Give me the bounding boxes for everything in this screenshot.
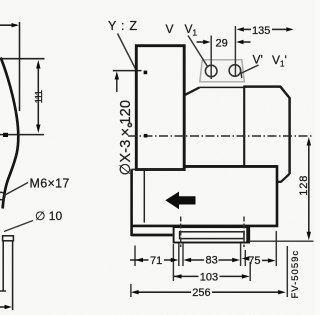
centre mark square dot [3, 133, 8, 137]
leader from V1 to left port [188, 36, 208, 67]
dimension 111 vertical line with arrows [37, 68, 39, 126]
bolt-circle up arrow [115, 71, 119, 79]
silencer box top-left thin line [132, 168, 185, 170]
left view: shaft right line [12, 241, 14, 310]
leader from V' to right port [241, 65, 259, 74]
degree mark [128, 123, 131, 126]
left view: leader line for M6x17 [4, 183, 28, 196]
ext line 256 right [286, 246, 288, 297]
svg-text:Y : Z: Y : Z [108, 19, 138, 33]
dimension 83 [191, 259, 234, 261]
bolt centre line left (dashed) [180, 217, 182, 248]
left view: vertical extension line x19 [19, 22, 21, 111]
silencer box outline [132, 166, 277, 236]
dimension 75 [242, 256, 250, 260]
flange bolt-circle line [113, 70, 142, 72]
silencer top edge thick [184, 165, 277, 168]
housing top edge right part [243, 85, 281, 88]
ext line motor edge [182, 244, 184, 267]
port centre line left [210, 36, 212, 80]
svg-text:128: 128 [298, 175, 310, 196]
ext line 103/256 right [249, 262, 251, 281]
left view: horizontal extension line y58.7 [0, 58, 45, 60]
base plate outer [174, 227, 250, 242]
motor bottom thin line [137, 169, 184, 171]
svg-text:256: 256 [192, 287, 210, 299]
svg-text:71: 71 [150, 255, 162, 267]
svg-text:135: 135 [252, 25, 270, 37]
silencer inner vertical line [143, 171, 145, 223]
dimension 128 vertical [308, 144, 310, 233]
port V circle (left) [205, 65, 217, 77]
housing bottom edge to silencer [276, 181, 282, 183]
ext line plate right end [244, 250, 246, 266]
dimension 71 [130, 259, 173, 261]
dimension 29 [197, 41, 204, 43]
ext line 256 left [130, 284, 132, 297]
left view: blower circular housing arc [1, 58, 19, 209]
centre mark square on centre line [144, 134, 148, 138]
left view: top width dimension line with right arrow [0, 24, 17, 26]
housing top-right chamfer [280, 87, 289, 98]
small square dot near flange [144, 71, 148, 75]
left view: shaft left line [2, 241, 4, 291]
svg-text:29: 29 [216, 38, 228, 50]
housing right edge [288, 98, 291, 175]
port V' circle (right) [229, 65, 241, 77]
main horizontal centre line (dash-dot) [128, 135, 313, 137]
shaft bottom dimension arrow [0, 306, 5, 308]
port centre line right [234, 26, 236, 77]
svg-text:111: 111 [34, 89, 45, 103]
leader from Y:Z to motor flange corner [118, 34, 136, 70]
housing top edge left part [200, 86, 246, 88]
ext line silencer right [275, 231, 277, 266]
left view: horizontal centre line [0, 134, 44, 136]
ext line 103 left [172, 244, 174, 281]
bolt centre line right (dashed) [243, 217, 245, 248]
left foot bottom [131, 234, 172, 237]
svg-text:FV-5059c: FV-5059c [290, 250, 301, 299]
shaft left end tick [0, 290, 6, 292]
housing bottom-right chamfer [281, 174, 290, 182]
svg-text:∅X-3 × 120: ∅X-3 × 120 [118, 100, 134, 176]
dimension 103 [173, 275, 243, 277]
dimension 135 [244, 28, 251, 30]
housing section divider [243, 87, 245, 167]
left view: shaft collar rectangle [3, 236, 14, 241]
ext line motor bolt [178, 244, 180, 267]
port flange trapezoid [200, 60, 245, 82]
svg-text:83: 83 [206, 255, 218, 267]
dimension 256 [138, 291, 280, 293]
ext line bolt right [240, 244, 242, 267]
svg-text:V: V [166, 22, 174, 36]
left view: M6 threaded hole on flange [0, 192, 5, 200]
svg-text:∅ 10: ∅ 10 [35, 209, 62, 223]
svg-text:75: 75 [248, 255, 260, 267]
leader end tick [240, 68, 242, 79]
flow direction arrow [165, 192, 195, 210]
svg-text:V1': V1' [272, 53, 287, 69]
svg-text:V': V' [253, 53, 263, 67]
base plate inner [180, 232, 244, 239]
base plate right end wall [246, 228, 249, 243]
ext line far left row1 [134, 246, 136, 267]
ground extension line right of base [249, 240, 314, 242]
housing top-left chamfer [184, 87, 199, 95]
svg-text:M6×17: M6×17 [30, 176, 70, 190]
left view: leader line for diameter 10 [4, 221, 33, 232]
motor body rectangle [136, 46, 184, 170]
svg-text:103: 103 [200, 271, 218, 283]
